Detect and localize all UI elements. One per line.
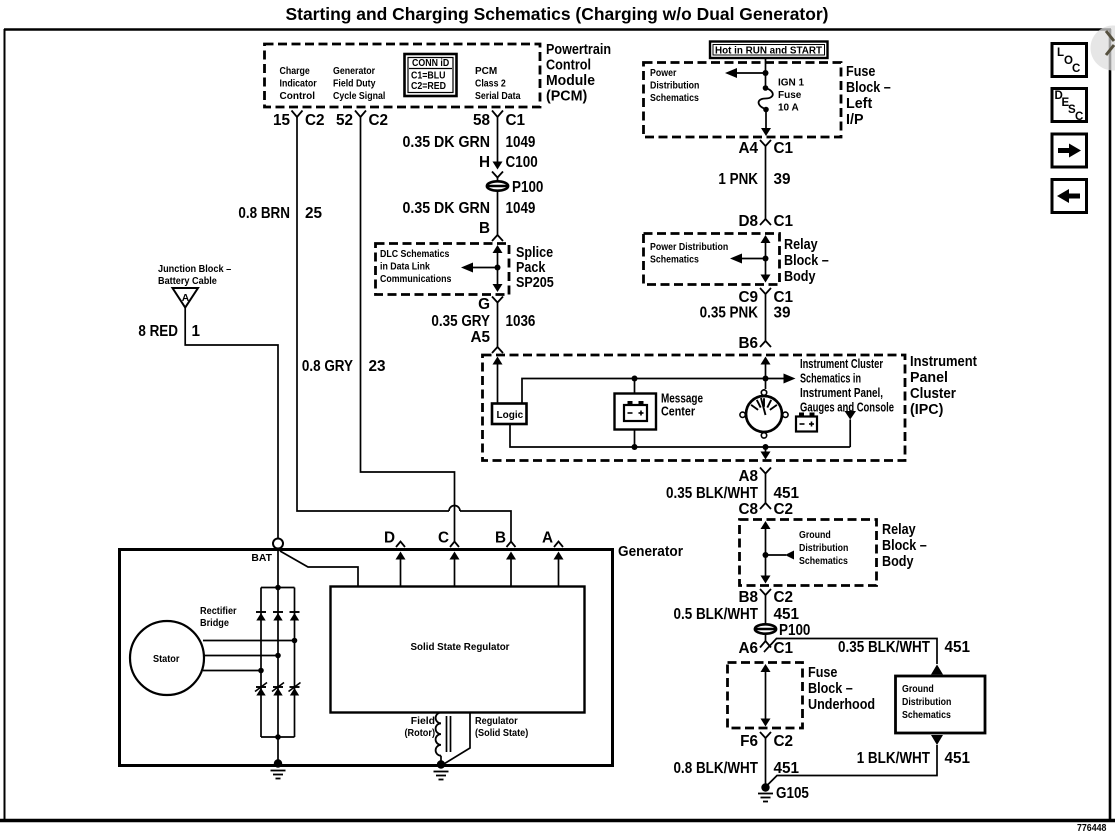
junction B6 node on top bus — [763, 376, 769, 382]
svg-text:1 PNK: 1 PNK — [718, 171, 758, 188]
Relay Block - Body dashed box (upper) — [644, 234, 780, 285]
svg-text:Charge: Charge — [280, 66, 311, 77]
wire down to fuse block edge with arrow — [765, 110, 767, 130]
svg-text:Schematics: Schematics — [799, 556, 848, 567]
connector A4 C1 — [760, 140, 771, 146]
svg-text:Field: Field — [411, 716, 435, 727]
svg-text:G105: G105 — [776, 785, 809, 802]
off-page triangle into GDS box (top) — [931, 665, 943, 675]
junction dot — [495, 265, 501, 271]
svg-text:G: G — [478, 296, 490, 313]
svg-text:F6: F6 — [740, 733, 758, 750]
field rotor coil — [436, 713, 441, 756]
svg-text:Hot in RUN and START: Hot in RUN and START — [715, 46, 823, 57]
small battery icon — [796, 417, 817, 432]
arrow to DLC schematics — [470, 267, 498, 269]
Fuse Block - Left I/P dashed box — [644, 63, 842, 138]
off-page triangle out of GDS box (bottom) — [931, 735, 943, 745]
svg-text:A: A — [182, 293, 190, 304]
wire 0.8 BRN 25 (pin 15 to generator B) — [297, 117, 449, 511]
splice pack SP205 dashed box — [376, 244, 510, 295]
svg-text:0.35 DK GRN: 0.35 DK GRN — [403, 134, 491, 151]
BAT feed to regulator — [280, 551, 358, 587]
svg-text:CONN iD: CONN iD — [412, 58, 449, 69]
svg-text:(Solid State): (Solid State) — [475, 728, 528, 739]
svg-text:Block –: Block – — [784, 253, 829, 269]
gauge ticks and needle — [751, 398, 777, 415]
svg-text:0.35 BLK/WHT: 0.35 BLK/WHT — [666, 485, 759, 502]
junction node — [763, 70, 769, 76]
svg-text:Regulator: Regulator — [475, 716, 518, 727]
svg-text:1 BLK/WHT: 1 BLK/WHT — [857, 750, 931, 767]
A5 entry arrow — [493, 357, 503, 365]
avalanche diode 6 (rectifier bottom row) — [289, 683, 301, 696]
svg-text:Bridge: Bridge — [200, 618, 229, 629]
junction gauge bottom / A8 node — [763, 444, 769, 450]
message center battery icon — [624, 405, 647, 421]
svg-text:Relay: Relay — [882, 522, 916, 538]
svg-text:Stator: Stator — [153, 654, 179, 665]
svg-text:Logic: Logic — [497, 410, 524, 421]
svg-text:Generator: Generator — [618, 544, 683, 560]
svg-text:B6: B6 — [738, 335, 758, 352]
Logic box — [492, 404, 527, 425]
svg-text:451: 451 — [945, 750, 971, 767]
svg-text:C1: C1 — [774, 213, 794, 230]
svg-text:0.35 GRY: 0.35 GRY — [431, 313, 490, 330]
svg-text:25: 25 — [305, 205, 323, 222]
svg-text:Schematics in: Schematics in — [800, 372, 861, 386]
next-page arrow button — [1052, 134, 1087, 167]
connector B8 C2 — [760, 589, 771, 595]
rectifier ground — [274, 759, 282, 767]
svg-text:Indicator: Indicator — [280, 79, 317, 90]
pin 15 connector C2 — [292, 111, 303, 118]
diode 1 (rectifier top row) — [256, 612, 266, 621]
svg-text:10 A: 10 A — [778, 103, 799, 114]
arrow to power distribution schematics — [734, 72, 766, 74]
svg-text:8 RED: 8 RED — [138, 323, 178, 340]
generator case box — [120, 550, 613, 766]
Ground Distribution Schematics solid box — [896, 676, 986, 733]
svg-text:Serial Data: Serial Data — [475, 91, 521, 102]
voltmeter gauge — [763, 389, 765, 434]
svg-text:C1: C1 — [506, 112, 526, 129]
svg-text:C2: C2 — [774, 733, 794, 750]
svg-text:P100: P100 — [779, 622, 810, 639]
Fuse Block - Underhood dashed box — [728, 663, 803, 729]
internal wire with arrows — [761, 521, 771, 529]
wire 0.8 GRY 23 (pin 52 to generator C) — [361, 117, 455, 541]
PCM-SECTION — [238, 42, 611, 541]
GROUND-CHAIN — [666, 468, 985, 803]
svg-text:0.35 DK GRN: 0.35 DK GRN — [403, 200, 491, 217]
svg-text:Distribution: Distribution — [902, 697, 951, 708]
connector F6 C2 — [760, 732, 771, 738]
svg-text:Underhood: Underhood — [808, 697, 875, 713]
Hot in RUN and START box — [710, 42, 828, 59]
splice pack internal wire with arrows — [493, 245, 503, 253]
svg-text:IGN 1: IGN 1 — [778, 78, 805, 89]
svg-text:Class 2: Class 2 — [475, 79, 506, 90]
svg-text:Field Duty: Field Duty — [333, 79, 376, 90]
SIDEBAR — [1052, 26, 1115, 213]
svg-text:A8: A8 — [738, 468, 758, 485]
junction block triangle A — [173, 288, 199, 308]
wire 0.35 DK GRN 1049 (pin 58 down) — [497, 117, 499, 163]
connector G below splice pack — [492, 297, 503, 303]
LOC button — [1052, 44, 1087, 77]
svg-text:C1: C1 — [774, 640, 794, 657]
Solid State Regulator box — [331, 587, 585, 713]
in-line connector C100 pin H (arrow + Y) — [493, 162, 503, 170]
svg-text:Distribution: Distribution — [650, 81, 699, 92]
grommet P100 (lower) — [754, 624, 777, 633]
svg-text:C: C — [1072, 63, 1080, 75]
svg-text:in Data Link: in Data Link — [380, 262, 430, 273]
svg-text:B: B — [495, 530, 506, 547]
svg-text:I/P: I/P — [846, 112, 864, 128]
svg-text:C2=RED: C2=RED — [411, 81, 446, 92]
svg-text:L: L — [1057, 47, 1064, 59]
arrow to power distribution schematics — [739, 258, 766, 260]
pin 58 connector C1 — [492, 111, 503, 118]
svg-text:Instrument Panel,: Instrument Panel, — [800, 386, 883, 400]
svg-text:Communications: Communications — [380, 274, 452, 285]
arrow to instrument cluster schematics — [784, 374, 796, 384]
connector A6 C1 with branch — [765, 635, 767, 642]
svg-text:C1: C1 — [774, 289, 794, 306]
svg-text:15: 15 — [273, 112, 291, 129]
svg-text:DLC Schematics: DLC Schematics — [380, 249, 450, 260]
Relay Block - Body dashed box (lower) — [740, 520, 877, 586]
svg-text:Panel: Panel — [910, 370, 948, 386]
pin 52 connector C2 — [355, 111, 366, 118]
pointer to ground distribution schematics — [766, 554, 787, 556]
stator — [130, 621, 204, 695]
A8 exit arrow — [765, 447, 767, 452]
svg-text:(PCM): (PCM) — [546, 89, 588, 105]
svg-text:0.35 BLK/WHT: 0.35 BLK/WHT — [838, 639, 931, 656]
connector C9 C1 — [760, 288, 771, 294]
svg-text:451: 451 — [945, 639, 971, 656]
svg-text:C1=BLU: C1=BLU — [411, 71, 446, 82]
relay block internal wire arrows — [761, 235, 771, 243]
svg-text:39: 39 — [774, 171, 791, 188]
svg-text:Center: Center — [661, 405, 695, 419]
svg-text:A6: A6 — [738, 640, 758, 657]
svg-text:C2: C2 — [774, 589, 794, 606]
svg-text:451: 451 — [774, 760, 800, 777]
branch wire 0.35 BLK/WHT 451 to ground distribution box — [764, 639, 937, 665]
svg-text:C8: C8 — [738, 501, 758, 518]
svg-text:Powertrain: Powertrain — [546, 42, 611, 58]
svg-text:Ground: Ground — [799, 530, 831, 541]
previous-page arrow button — [1052, 180, 1087, 213]
svg-text:Instrument: Instrument — [910, 354, 977, 370]
svg-text:C: C — [1075, 111, 1083, 123]
svg-text:Control: Control — [280, 91, 316, 102]
svg-text:Ground: Ground — [902, 684, 934, 695]
svg-text:C2: C2 — [305, 112, 325, 129]
svg-text:Battery Cable: Battery Cable — [158, 276, 217, 287]
svg-text:Body: Body — [882, 554, 914, 570]
junction stator phase 2 — [275, 653, 281, 659]
junction message center top — [632, 376, 638, 382]
svg-text:Block –: Block – — [882, 538, 927, 554]
svg-text:C: C — [438, 530, 449, 547]
svg-text:Body: Body — [784, 269, 816, 285]
svg-text:52: 52 — [336, 112, 353, 129]
DESC button — [1052, 89, 1087, 122]
wire from Hot box into fuse block — [765, 58, 767, 87]
CONN ID legend box — [405, 54, 457, 96]
svg-text:SP205: SP205 — [516, 275, 554, 291]
field ground — [437, 760, 445, 768]
bottom bus wire — [510, 424, 850, 447]
BAT terminal — [273, 539, 283, 549]
svg-text:P100: P100 — [512, 179, 543, 196]
svg-text:0.8 BLK/WHT: 0.8 BLK/WHT — [674, 760, 759, 777]
watermark circle overlay — [1091, 26, 1115, 71]
rectifier bridge rails — [261, 588, 295, 738]
svg-text:Rectifier: Rectifier — [200, 606, 237, 617]
svg-text:Fuse: Fuse — [808, 665, 837, 681]
svg-text:Block –: Block – — [846, 80, 891, 96]
junction stator phase 1 — [292, 638, 298, 644]
svg-text:0.35 PNK: 0.35 PNK — [700, 305, 758, 322]
svg-text:Fuse: Fuse — [846, 64, 875, 80]
avalanche diode 5 (rectifier bottom row) — [272, 683, 284, 696]
svg-text:451: 451 — [774, 485, 800, 502]
svg-text:Relay: Relay — [784, 237, 818, 253]
svg-text:A: A — [542, 530, 553, 547]
svg-text:Junction Block –: Junction Block – — [158, 264, 231, 275]
svg-text:Distribution: Distribution — [799, 543, 848, 554]
ground G105 — [761, 783, 769, 791]
regulator ground lead — [443, 713, 470, 765]
svg-text:Schematics: Schematics — [650, 93, 699, 104]
fuse IGN 1 10 A — [763, 85, 769, 91]
stator phase wires — [203, 640, 295, 642]
junction stator phase 3 — [258, 668, 264, 674]
svg-text:Schematics: Schematics — [650, 255, 699, 266]
svg-text:Power: Power — [650, 68, 676, 79]
GENERATOR — [120, 530, 684, 780]
svg-text:Fuse: Fuse — [778, 90, 802, 101]
svg-text:58: 58 — [473, 112, 491, 129]
svg-text:B: B — [479, 220, 490, 237]
PCM module dashed box — [265, 44, 541, 107]
B6 entry arrow — [761, 357, 771, 365]
svg-text:Generator: Generator — [333, 66, 375, 77]
svg-text:Module: Module — [546, 73, 595, 89]
svg-text:0.8 GRY: 0.8 GRY — [302, 358, 353, 375]
junction at rectifier top bar — [275, 585, 281, 591]
svg-text:D8: D8 — [738, 213, 758, 230]
wire logic top to bus — [522, 379, 786, 404]
junction at rectifier bottom bar — [275, 734, 281, 740]
wire 1 BLK/WHT 451 back to G105 — [767, 745, 938, 786]
grommet P100 — [486, 181, 509, 190]
svg-text:0.8 BRN: 0.8 BRN — [238, 205, 290, 222]
svg-text:Splice: Splice — [516, 245, 553, 261]
svg-text:Power Distribution: Power Distribution — [650, 242, 728, 253]
svg-text:Schematics: Schematics — [902, 710, 951, 721]
wire hop over GRY wire — [449, 506, 460, 511]
IPC dashed box — [483, 355, 906, 461]
svg-text:C100: C100 — [506, 154, 538, 171]
svg-text:Control: Control — [546, 58, 591, 74]
svg-text:1036: 1036 — [506, 313, 536, 330]
Message Center box — [615, 394, 657, 430]
svg-text:BAT: BAT — [251, 553, 272, 564]
svg-text:(IPC): (IPC) — [910, 402, 944, 418]
IPC — [483, 354, 978, 461]
SERIAL-CHAIN — [376, 117, 554, 353]
svg-text:Left: Left — [846, 96, 872, 112]
telltale triangle — [845, 411, 857, 420]
svg-text:776448: 776448 — [1077, 823, 1107, 831]
svg-text:Cluster: Cluster — [910, 386, 956, 402]
svg-text:1: 1 — [192, 323, 201, 340]
BAT wire down through rectifier to ground — [277, 549, 279, 764]
junction message center bottom — [632, 444, 638, 450]
svg-text:Block –: Block – — [808, 681, 853, 697]
svg-text:C2: C2 — [369, 112, 389, 129]
connector A8 — [760, 468, 771, 474]
RIGHT-CHAIN — [644, 42, 891, 353]
svg-text:C1: C1 — [774, 140, 794, 157]
JUNCTION-BLOCK — [138, 264, 278, 539]
svg-text:PCM: PCM — [475, 66, 497, 77]
svg-text:Starting and Charging Schemati: Starting and Charging Schematics (Chargi… — [286, 4, 829, 24]
svg-text:451: 451 — [774, 606, 800, 623]
avalanche diode 4 (rectifier bottom row) — [255, 683, 267, 696]
svg-text:Pack: Pack — [516, 260, 545, 276]
svg-text:H: H — [479, 154, 490, 171]
diode 3 (rectifier top row) — [290, 612, 300, 621]
svg-text:Cycle Signal: Cycle Signal — [333, 91, 385, 102]
svg-text:A5: A5 — [470, 329, 490, 346]
svg-text:(Rotor): (Rotor) — [405, 728, 436, 739]
svg-text:1049: 1049 — [506, 134, 536, 151]
diode 2 (rectifier top row) — [273, 612, 283, 621]
wire 8 RED 1 to generator BAT — [185, 308, 278, 539]
svg-text:C2: C2 — [774, 501, 794, 518]
svg-text:A4: A4 — [738, 140, 758, 157]
svg-text:39: 39 — [774, 305, 791, 322]
svg-text:23: 23 — [369, 358, 386, 375]
svg-text:C9: C9 — [738, 289, 758, 306]
svg-text:D: D — [384, 530, 395, 547]
svg-text:Solid State Regulator: Solid State Regulator — [411, 642, 510, 653]
svg-text:B8: B8 — [738, 589, 758, 606]
svg-text:0.5 BLK/WHT: 0.5 BLK/WHT — [674, 606, 759, 623]
wire 0.35 DK GRN 1049 (below grommet) — [497, 191, 499, 235]
cursor marks in corner — [1106, 31, 1114, 55]
svg-text:1049: 1049 — [506, 200, 536, 217]
svg-text:Instrument Cluster: Instrument Cluster — [800, 357, 883, 371]
svg-text:Message: Message — [661, 392, 703, 406]
